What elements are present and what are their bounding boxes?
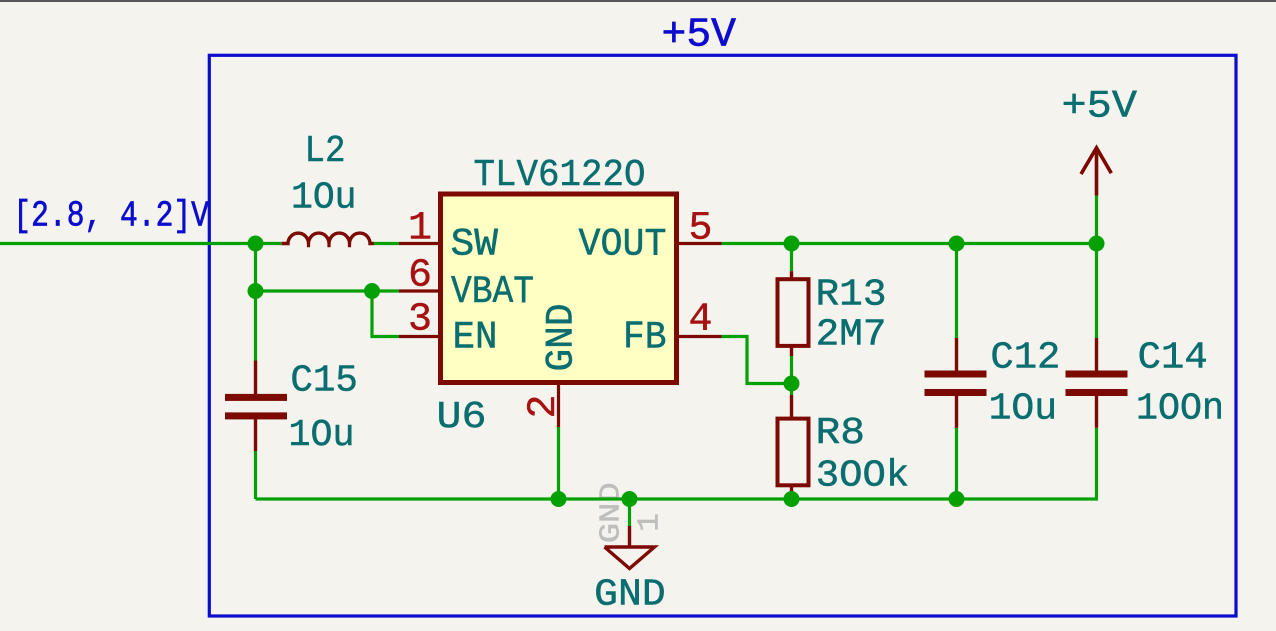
capacitor C12 bbox=[955, 338, 958, 371]
svg-text:GND: GND bbox=[595, 482, 628, 543]
wire: R8 bottom to bus bbox=[790, 496, 793, 500]
junction node bus/R8 bbox=[784, 491, 800, 507]
hidden power pin number 1 (gray) bbox=[633, 513, 668, 532]
IC U6 TLV61220 body bbox=[441, 194, 677, 383]
svg-text:3OOk: 3OOk bbox=[816, 454, 910, 497]
svg-text:1Ou: 1Ou bbox=[989, 388, 1058, 431]
svg-text:VOUT: VOUT bbox=[579, 223, 667, 267]
svg-text:FB: FB bbox=[623, 316, 667, 360]
svg-text:C12: C12 bbox=[990, 337, 1060, 380]
svg-text:VBAT: VBAT bbox=[451, 270, 534, 314]
junction node bus/pin2 bbox=[551, 491, 567, 507]
wire: vertical junction drop to VBAT net bbox=[254, 244, 257, 292]
pin 5 VOUT stub bbox=[677, 242, 722, 245]
svg-text:SW: SW bbox=[451, 223, 499, 267]
junction node input/L2 bbox=[248, 236, 264, 252]
window top border line bbox=[0, 0, 1276, 2]
wire: L2 to pin 1 bbox=[374, 242, 400, 245]
resistor R13 bbox=[790, 271, 793, 280]
svg-text:R13: R13 bbox=[816, 274, 887, 317]
wire: R13 bottom to FB node bbox=[790, 356, 793, 384]
svg-text:1: 1 bbox=[633, 513, 668, 532]
wire: C14 top lead bbox=[1095, 244, 1098, 339]
wire: FB net pin 4 to divider bbox=[722, 337, 792, 384]
svg-text:+5V: +5V bbox=[1062, 85, 1138, 129]
pin 3 EN stub bbox=[399, 335, 441, 338]
wire: C12 top lead bbox=[955, 244, 958, 339]
pin 1 SW stub bbox=[399, 242, 441, 245]
svg-text:1Ou: 1Ou bbox=[291, 177, 357, 220]
wire: C12 bottom to bus bbox=[955, 428, 958, 499]
wire: R8 top lead bbox=[790, 384, 793, 396]
pin 6 VBAT stub bbox=[399, 289, 441, 292]
svg-text:EN: EN bbox=[453, 316, 498, 360]
wire: GND pin 2 lead lower part bbox=[557, 427, 560, 499]
svg-text:1Ou: 1Ou bbox=[289, 414, 355, 457]
svg-text:2: 2 bbox=[522, 394, 567, 418]
junction node bus/C12 bbox=[949, 491, 965, 507]
svg-text:L2: L2 bbox=[305, 130, 346, 173]
junction node VOUT/R13 bbox=[784, 236, 800, 252]
svg-text:4: 4 bbox=[688, 298, 712, 343]
pin 2 GND stub bbox=[557, 383, 560, 428]
resistor R8 bbox=[790, 395, 793, 419]
pin name GND (inside IC, rotated) bbox=[540, 304, 584, 372]
wire: ground bus bbox=[256, 497, 1099, 500]
inductor L2 bbox=[281, 233, 373, 243]
wire: +5V power stem bbox=[1095, 196, 1098, 244]
junction node VOUT/C12 bbox=[949, 236, 965, 252]
svg-text:2M7: 2M7 bbox=[816, 314, 887, 357]
svg-text:+5V: +5V bbox=[662, 13, 737, 59]
wire: input net from left edge to L2 bbox=[0, 242, 281, 245]
capacitor C14 bbox=[1095, 338, 1098, 371]
wire: EN branch down and right to pin 3 bbox=[372, 291, 399, 337]
svg-text:5: 5 bbox=[688, 207, 712, 252]
wire: R13 top lead bbox=[790, 244, 793, 272]
svg-text:3: 3 bbox=[408, 298, 432, 343]
svg-text:1OOn: 1OOn bbox=[1136, 388, 1224, 431]
wire: C15 top lead bbox=[254, 291, 257, 361]
svg-text:GND: GND bbox=[540, 304, 584, 372]
power symbol +5V bbox=[1095, 148, 1099, 196]
wire: VBAT horizontal to pin 6 bbox=[256, 289, 400, 292]
svg-text:TLV6122O: TLV6122O bbox=[474, 154, 646, 197]
svg-text:C15: C15 bbox=[290, 360, 358, 403]
junction node FB/R13/R8 bbox=[784, 376, 800, 392]
svg-text:[2.8, 4.2]V: [2.8, 4.2]V bbox=[13, 196, 209, 237]
junction node VOUT/+5V/C14 bbox=[1089, 236, 1105, 252]
svg-text:GND: GND bbox=[594, 574, 666, 617]
junction node EN branch bbox=[364, 283, 380, 299]
junction node VBAT drop bbox=[248, 283, 264, 299]
hidden power pin name GND (gray) bbox=[595, 482, 628, 543]
svg-text:1: 1 bbox=[408, 207, 432, 252]
svg-text:C14: C14 bbox=[1138, 337, 1208, 380]
wire: GND symbol stem upper part bbox=[628, 499, 631, 526]
junction node bus/GND bbox=[622, 491, 638, 507]
power symbol GND bbox=[628, 526, 631, 547]
wire: C15 bottom lead to ground bus bbox=[254, 451, 257, 499]
svg-text:R8: R8 bbox=[816, 412, 866, 455]
pin number 2 bbox=[522, 394, 567, 418]
wire: VOUT net pin 5 to +5V bbox=[722, 242, 1097, 245]
svg-text:U6: U6 bbox=[437, 396, 487, 439]
pin 4 FB stub bbox=[677, 335, 722, 338]
capacitor C15 bbox=[254, 361, 257, 395]
svg-text:6: 6 bbox=[408, 254, 432, 299]
wire: C14 bottom to bus bbox=[1095, 428, 1098, 499]
sheet boundary rectangle bbox=[209, 55, 1236, 616]
